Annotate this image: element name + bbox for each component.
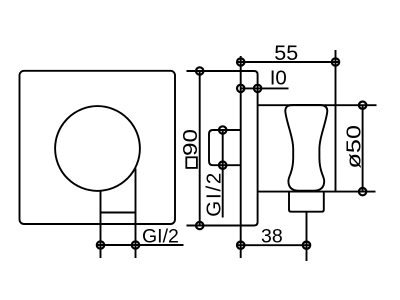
svg-text:GI/2: GI/2	[203, 171, 226, 217]
svg-text:90: 90	[179, 129, 202, 156]
svg-text:ø50: ø50	[342, 125, 365, 169]
svg-text:I0: I0	[270, 66, 287, 89]
svg-text:GI/2: GI/2	[142, 226, 179, 248]
svg-text:38: 38	[261, 225, 283, 247]
svg-text:55: 55	[274, 41, 298, 65]
